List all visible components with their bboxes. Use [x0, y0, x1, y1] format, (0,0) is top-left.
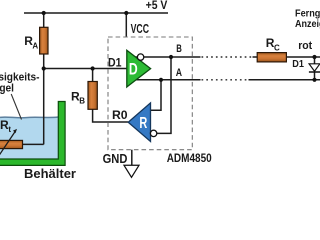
wire RA top lead [43, 13, 45, 27]
node dot sensor node [42, 66, 46, 70]
svg-text:B: B [176, 43, 182, 55]
wire top +5V rail [24, 12, 168, 14]
ground symbol [124, 165, 139, 177]
svg-text:D1: D1 [108, 55, 122, 69]
svg-text:R0: R0 [112, 108, 128, 122]
svg-text:R: R [139, 115, 147, 132]
liquid [0, 117, 58, 159]
container Behälter [0, 102, 65, 166]
wire probe down into liquid [43, 69, 45, 145]
wire sensor node to D input [44, 68, 127, 70]
svg-text:D: D [129, 60, 138, 79]
node dot RB tap [91, 66, 95, 70]
svg-text:GND: GND [103, 151, 128, 166]
wire B line dotted [202, 56, 253, 58]
node dot LED bottom [312, 78, 316, 82]
node dot B line [169, 55, 173, 59]
svg-text:C: C [274, 44, 280, 53]
node dot top RA [42, 11, 46, 15]
pointer line Flüssigkeitsspiegel [11, 94, 21, 120]
node dot top VCC [124, 11, 128, 15]
svg-text:rot: rot [298, 40, 312, 52]
wire A line right solid [249, 79, 320, 81]
resistor Rt probe [0, 140, 23, 148]
svg-text:Flüssigkeits-: Flüssigkeits- [0, 71, 40, 83]
svg-text:ADM4850: ADM4850 [167, 151, 212, 165]
receiver inverting bubble [150, 130, 156, 136]
op-amp driver D (ADM4850 driver) [127, 50, 151, 87]
LED D1 [309, 64, 320, 71]
wire A line solid [136, 79, 201, 81]
svg-text:Behälter: Behälter [24, 167, 76, 180]
dashed IC box ADM4850 [108, 37, 192, 150]
op-amp receiver R [128, 103, 150, 142]
resistor RC [257, 53, 286, 62]
node dot A line [159, 78, 163, 82]
svg-text:B: B [79, 97, 85, 106]
driver inverting bubble [137, 54, 143, 60]
wire VCC pin [125, 13, 127, 37]
wire B line right solid [253, 56, 320, 58]
svg-text:VCC: VCC [131, 22, 149, 36]
svg-text:A: A [176, 67, 182, 79]
wire RB top lead [92, 69, 94, 82]
svg-text:+5 V: +5 V [146, 0, 168, 12]
wire receiver input A [151, 80, 161, 111]
svg-text:t: t [8, 125, 11, 134]
liquid surface [0, 116, 58, 119]
svg-text:D1: D1 [292, 58, 304, 70]
wire RB bottom to R0 [93, 109, 129, 122]
Rt variable arrow [0, 131, 16, 156]
wire GND pin [131, 150, 133, 166]
wire receiver input B [157, 57, 171, 133]
svg-text:A: A [32, 41, 38, 50]
svg-text:spiegel: spiegel [0, 83, 14, 95]
wire probe to Rt [22, 143, 44, 145]
svg-text:Anzeige: Anzeige [295, 18, 320, 30]
resistor RA [40, 27, 48, 54]
wire B line solid [144, 56, 201, 58]
wire LED anode [314, 57, 316, 64]
wire LED cathode [314, 72, 316, 80]
wire RA bottom lead to node [43, 54, 45, 69]
wire B output stub [134, 56, 138, 58]
wire A line dotted [202, 79, 249, 81]
node dot LED top [312, 55, 316, 59]
resistor RB [88, 82, 97, 110]
